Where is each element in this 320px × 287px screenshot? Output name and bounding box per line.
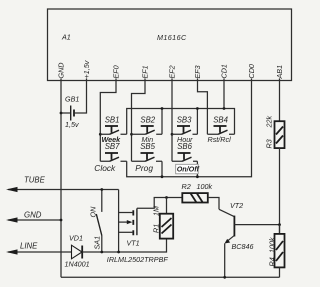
transistor VT1 IRLML2502TRPBF (107, 190, 169, 264)
svg-text:+1,5v: +1,5v (82, 60, 91, 78)
svg-text:R1: R1 (152, 224, 161, 233)
svg-text:100k: 100k (268, 237, 277, 253)
svg-text:EF1: EF1 (141, 65, 150, 78)
svg-text:VD1: VD1 (69, 234, 83, 243)
arrow TUBE (6, 176, 119, 193)
node VT2 emitter junction (223, 276, 226, 279)
wire EF1 to key column 2 (132, 81, 146, 162)
button SB5 Prog (132, 142, 163, 173)
button SB7 Clock (94, 142, 126, 173)
wire VT1 gate to R1/R2 node (137, 198, 182, 209)
wire EF3 to key column 4 (198, 81, 208, 135)
diode VD1 1N4001 (65, 234, 90, 269)
node gate node (165, 196, 168, 199)
button SB2 Min (132, 116, 163, 144)
wire CD1 pin drop (223, 81, 225, 109)
wire SB2 riser to CD1 bus (161, 109, 163, 135)
node CD0 bus junctions (161, 175, 199, 178)
svg-text:1M: 1M (152, 206, 161, 216)
node SA1 bottom junction (100, 251, 103, 254)
svg-text:SB5: SB5 (140, 142, 155, 151)
svg-text:R2: R2 (182, 182, 191, 191)
wire SB3 riser to CD1 bus (196, 109, 198, 135)
pin label EF1 (141, 65, 150, 80)
svg-text:IRLML2502TRPBF: IRLML2502TRPBF (107, 255, 169, 264)
svg-text:VT1: VT1 (127, 239, 140, 248)
pin label EF2 (168, 65, 177, 80)
svg-text:GND: GND (24, 211, 42, 220)
svg-text:SB1: SB1 (105, 116, 120, 125)
svg-text:SB2: SB2 (140, 116, 155, 125)
svg-text:Prog: Prog (135, 163, 153, 173)
wire EF2 to key column 3 (171, 81, 173, 162)
button SB4 Rst/Rcl (207, 116, 234, 144)
switch SA1 ON (89, 190, 102, 253)
svg-text:CD0: CD0 (247, 64, 256, 78)
svg-text:SB7: SB7 (105, 142, 120, 151)
wire SB5 riser to CD0 bus (161, 161, 163, 176)
resistor R4 100k (268, 225, 285, 278)
svg-text:R3: R3 (265, 139, 274, 148)
label On/Off boxed (176, 164, 200, 174)
arrow GND (6, 211, 61, 223)
svg-text:EF2: EF2 (168, 65, 177, 78)
wire GND rail (60, 81, 62, 278)
svg-text:A1: A1 (61, 33, 71, 42)
svg-text:SA1: SA1 (93, 236, 102, 250)
svg-text:100k: 100k (197, 182, 213, 191)
svg-text:SB6: SB6 (177, 142, 192, 151)
svg-text:Rst/Rcl: Rst/Rcl (208, 135, 232, 144)
svg-text:CD1: CD1 (220, 64, 229, 78)
pin label CD0 (247, 64, 256, 80)
wire bottom bus (61, 276, 280, 278)
pin label EF0 (112, 65, 121, 80)
svg-text:1N4001: 1N4001 (65, 260, 90, 269)
pin label CD1 (220, 64, 229, 80)
resistor R2 100k (182, 182, 220, 209)
svg-text:1,5v: 1,5v (65, 120, 79, 129)
IC A1 M1616C (48, 9, 292, 81)
node VT1 source junction (117, 251, 120, 254)
svg-text:R4: R4 (268, 257, 277, 266)
arrow LINE (6, 242, 71, 255)
svg-text:VT2: VT2 (230, 201, 243, 210)
svg-text:On/Off: On/Off (177, 165, 200, 174)
svg-text:SB4: SB4 (213, 116, 228, 125)
svg-text:Clock: Clock (94, 163, 116, 173)
battery GB1 1,5v (61, 81, 87, 130)
node SA1 top junction (100, 188, 103, 191)
wire CD1 bus with end risers (127, 109, 235, 135)
pin label AB1 (275, 65, 284, 81)
resistor R3 22k (265, 81, 285, 149)
wire diode cathode to R1 bottom (82, 239, 166, 252)
pin label EF3 (193, 65, 202, 80)
svg-text:EF0: EF0 (112, 65, 121, 78)
node key column left junctions (99, 133, 174, 136)
button SB3 Hour (172, 116, 197, 144)
svg-text:TUBE: TUBE (24, 176, 46, 185)
pin label GND (57, 63, 66, 81)
wire SB6 riser to CD0 bus (196, 161, 198, 176)
node GND arrow junction (60, 219, 63, 222)
svg-text:BC846: BC846 (232, 242, 254, 251)
button SB1 Week (100, 116, 126, 144)
svg-text:22k: 22k (265, 116, 274, 129)
svg-text:GB1: GB1 (65, 95, 79, 104)
svg-text:ON: ON (89, 206, 98, 218)
svg-text:LINE: LINE (20, 242, 38, 251)
button SB6 On/Off (172, 142, 197, 162)
svg-text:M1616C: M1616C (157, 33, 187, 42)
wire CD0 pin drop and CD0 bus (127, 81, 252, 177)
transistor VT2 BC846 (219, 201, 280, 277)
svg-text:AB1: AB1 (275, 65, 284, 80)
node VT2 base node (278, 223, 281, 226)
svg-text:SB3: SB3 (177, 116, 192, 125)
node CD1 bus junctions (161, 107, 226, 110)
svg-text:GND: GND (57, 63, 66, 79)
wire R3 to VT2 base node (279, 148, 281, 234)
wire EF0 to key column 1 (100, 81, 116, 162)
node battery-GND junction (60, 112, 63, 115)
pin label +1,5v (82, 60, 91, 80)
resistor R1 1M (152, 198, 174, 239)
svg-text:EF3: EF3 (193, 65, 202, 78)
